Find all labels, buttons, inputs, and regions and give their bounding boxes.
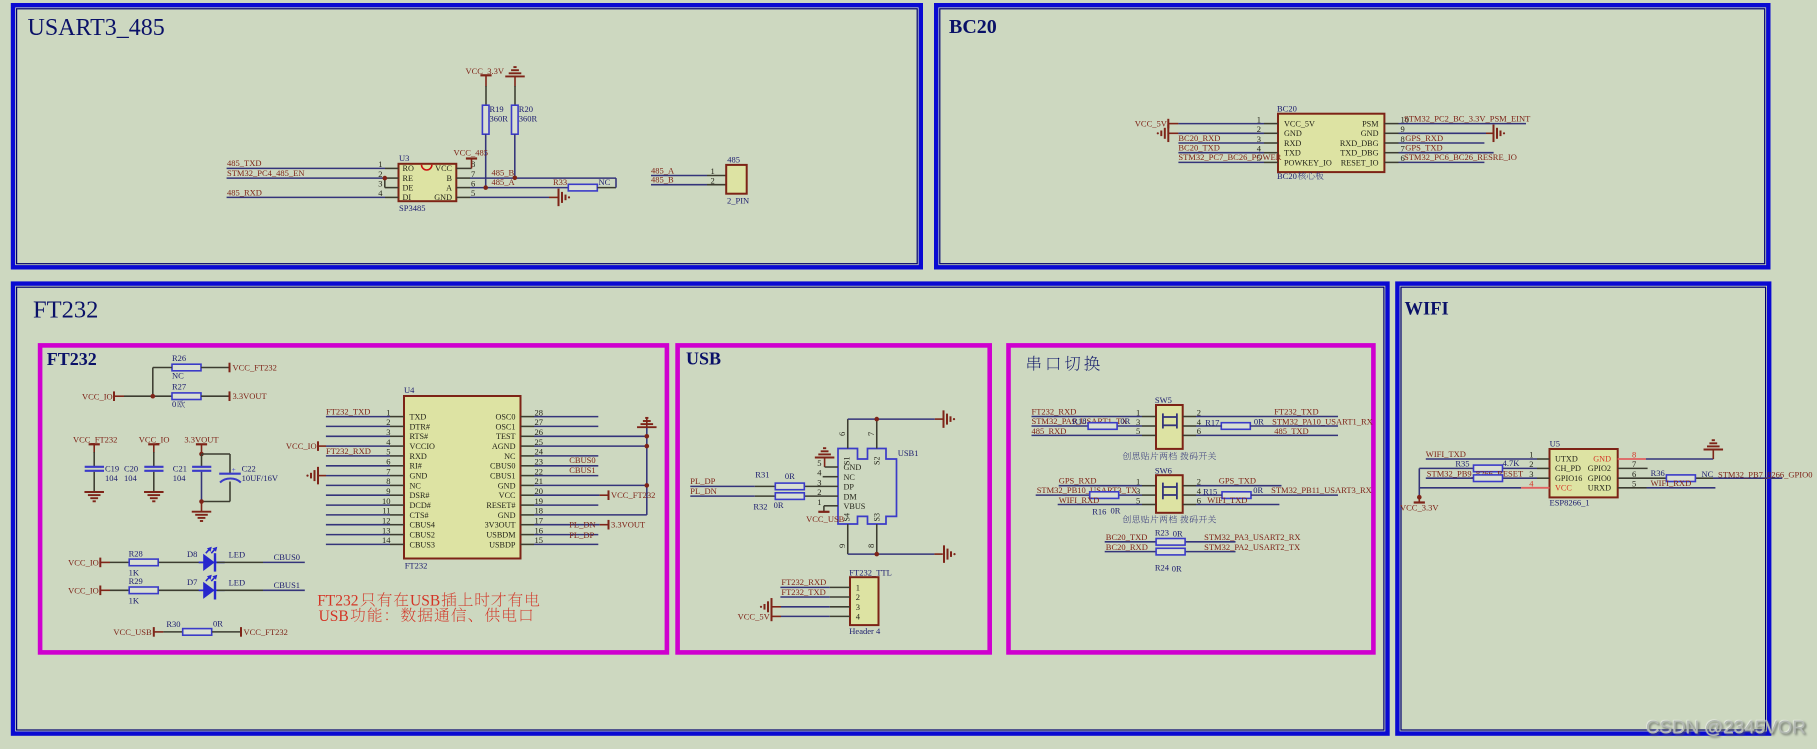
- wire 485_TXD SW5 pin6: [1183, 434, 1196, 436]
- svg-text:VCC_IO: VCC_IO: [82, 391, 113, 401]
- svg-text:104: 104: [173, 473, 187, 483]
- svg-text:+: +: [232, 465, 236, 474]
- svg-text:GND: GND: [1284, 129, 1302, 138]
- svg-text:SW6: SW6: [1155, 465, 1172, 475]
- svg-text:2_PIN: 2_PIN: [727, 196, 749, 206]
- svg-text:C19: C19: [105, 464, 119, 474]
- svg-text:VCC_FT232: VCC_FT232: [233, 363, 277, 373]
- power ground USB top: [943, 410, 945, 428]
- wire U4 pin20 VCC: [521, 494, 535, 496]
- svg-text:OSC1: OSC1: [495, 422, 515, 431]
- svg-text:WIFI: WIFI: [1405, 300, 1449, 320]
- wire U5 pin3 through R34: [1426, 477, 1537, 479]
- svg-text:GND: GND: [410, 472, 428, 481]
- svg-text:7: 7: [866, 432, 876, 436]
- wire junction to U3 pin3: [384, 178, 386, 188]
- svg-text:R26: R26: [172, 353, 186, 363]
- svg-text:CBUS1: CBUS1: [569, 465, 595, 475]
- svg-text:USB1: USB1: [898, 448, 919, 458]
- wire U4 pin2: [326, 425, 390, 427]
- svg-text:STM32_PA3_USART2_RX: STM32_PA3_USART2_RX: [1204, 532, 1300, 542]
- svg-text:A: A: [446, 183, 452, 192]
- wires U4 pins 8-14: [326, 484, 390, 486]
- earth ground C19: [84, 491, 104, 493]
- power ground at BC20 pin9: [1493, 125, 1495, 143]
- svg-text:104: 104: [124, 473, 138, 483]
- wire R33 to 485_B net: [597, 187, 616, 189]
- wire D7 to CBUS1: [217, 589, 263, 591]
- resistor R18: [1088, 423, 1117, 430]
- svg-text:PL_DN: PL_DN: [569, 520, 595, 530]
- svg-text:STM32_PB10_USART3_TX: STM32_PB10_USART3_TX: [1037, 485, 1138, 495]
- resistor R15: [1222, 492, 1251, 499]
- svg-text:RTS#: RTS#: [410, 432, 429, 441]
- svg-text:USB: USB: [410, 593, 440, 610]
- wire 3.3VOUT node to C21 and C22: [201, 454, 203, 466]
- wire U5 pin5 URXD: [1618, 487, 1647, 489]
- wire U4 pin15 USBDP: [521, 543, 535, 545]
- svg-text:GND: GND: [434, 193, 452, 202]
- svg-text:D7: D7: [187, 577, 197, 587]
- wire SW6 pin4 through R15: [1183, 494, 1196, 496]
- wire gnd vertical U4 right: [646, 418, 648, 429]
- wire USB1 pin1 VBUS to VCC_USB: [824, 505, 838, 507]
- svg-text:VCC_FT232: VCC_FT232: [73, 435, 117, 445]
- SW5 symbol: [1162, 413, 1164, 428]
- wire U3 pin5 GND: [456, 196, 470, 198]
- svg-text:R36: R36: [1651, 468, 1665, 478]
- svg-text:104: 104: [105, 473, 119, 483]
- svg-text:BC20: BC20: [1277, 171, 1297, 181]
- wire U4 pin3: [326, 435, 390, 437]
- capacitor C21: [192, 466, 211, 468]
- svg-text:1K: 1K: [129, 595, 140, 605]
- earth ground C20: [144, 491, 164, 493]
- resistor R28: [129, 559, 158, 566]
- svg-text:0R: 0R: [785, 471, 795, 481]
- wire U4 pin25 AGND to gnd: [521, 445, 535, 447]
- wire PL_DN through R32: [690, 495, 755, 497]
- label 创思贴片两档拨码开关 (SW6): [1123, 515, 1177, 523]
- junction VCC_3.3V: [1417, 495, 1422, 500]
- svg-text:STM32_PC4_485_EN: STM32_PC4_485_EN: [227, 168, 304, 178]
- block frame FT232: [13, 284, 1388, 734]
- svg-text:D8: D8: [187, 549, 197, 559]
- wire U5 pin8 GND to earth: [1618, 458, 1646, 460]
- svg-text:485_RXD: 485_RXD: [227, 187, 262, 197]
- svg-text:1: 1: [817, 497, 821, 507]
- svg-text:R32: R32: [753, 501, 767, 511]
- resistor R30: [183, 629, 212, 636]
- wire VCC_USB to R30: [154, 631, 164, 633]
- wire USB1 pin4: [823, 476, 838, 478]
- resistor R23: [1156, 539, 1185, 546]
- svg-text:FT232_TXD: FT232_TXD: [326, 406, 370, 416]
- wire FT232_RXD header pin1: [780, 586, 829, 588]
- wire vertical VCC_3.3V rail: [1418, 468, 1420, 497]
- svg-text:PL_DN: PL_DN: [690, 486, 716, 496]
- svg-text:VCC_IO: VCC_IO: [68, 585, 99, 595]
- wire VCC_5V header pin4: [772, 615, 782, 617]
- capacitor C22 (polarized): [219, 473, 241, 475]
- wire 485_A from U3 pin6: [456, 187, 470, 189]
- junction on pin2 net: [383, 176, 388, 181]
- svg-text:BC20: BC20: [949, 16, 997, 38]
- wire to C19: [93, 452, 95, 466]
- wire SW5 pin4 through R17: [1183, 425, 1196, 427]
- svg-text:RESET_IO: RESET_IO: [1341, 158, 1379, 167]
- wire gnd header pin3: [772, 606, 782, 608]
- svg-text:B: B: [447, 174, 453, 183]
- power port 3.3VOUT (R27): [229, 391, 231, 401]
- svg-text:WIFI_RXD: WIFI_RXD: [1059, 495, 1100, 505]
- svg-text:3.3VOUT: 3.3VOUT: [184, 435, 219, 445]
- svg-text:0R: 0R: [1173, 529, 1183, 539]
- wire WIFI_TXD U5 pin1: [1426, 458, 1537, 460]
- wire C22 to gnd node: [229, 482, 231, 502]
- earth ground (U5 pin8): [1704, 449, 1724, 451]
- svg-text:STM32_PC7_BC26_POWER: STM32_PC7_BC26_POWER: [1178, 152, 1281, 162]
- svg-text:VCC: VCC: [499, 491, 516, 500]
- svg-text:NC: NC: [172, 371, 184, 381]
- svg-text:OSC0: OSC0: [495, 413, 515, 422]
- svg-text:360R: 360R: [519, 114, 538, 124]
- wire STM32_PC4_485_EN to U3 pin2: [227, 177, 385, 179]
- svg-text:NC: NC: [1702, 469, 1714, 479]
- earth ground (U4 right): [637, 426, 657, 428]
- svg-text:2: 2: [711, 175, 715, 185]
- svg-text:CBUS3: CBUS3: [410, 540, 435, 549]
- wire gnd U4 pin7: [318, 475, 326, 477]
- svg-text:PL_DP: PL_DP: [569, 530, 594, 540]
- svg-text:BC20_TXD: BC20_TXD: [1178, 143, 1220, 153]
- svg-text:9: 9: [837, 544, 847, 548]
- svg-text:0R: 0R: [213, 619, 223, 629]
- wire VCC_3.3V to R19: [485, 86, 487, 106]
- wire C20 to gnd: [153, 472, 155, 492]
- resistor R34: [1474, 475, 1503, 482]
- svg-text:RE: RE: [403, 174, 413, 183]
- power port 3.3VOUT (U4 pin17): [608, 520, 610, 530]
- svg-text:TXD_DBG: TXD_DBG: [1340, 149, 1378, 158]
- svg-text:VCC_3.3V: VCC_3.3V: [1400, 503, 1439, 513]
- wire U4 pin21 GND to gnd: [521, 484, 535, 486]
- power port VCC_3.3V (U5): [1418, 497, 1420, 502]
- svg-text:FT232_TXD: FT232_TXD: [781, 587, 825, 597]
- svg-text:U4: U4: [404, 385, 415, 395]
- wire U5 pin2 through R35: [1419, 467, 1473, 469]
- wire U4 pin17 3V3OUT: [521, 524, 535, 526]
- svg-text:S1: S1: [843, 457, 852, 465]
- svg-text:U5: U5: [1550, 439, 1560, 449]
- svg-text:485_A: 485_A: [492, 177, 516, 187]
- wire STM32_PC6 pin6: [1384, 161, 1398, 163]
- wire WIFI_TXD SW6 pin6: [1183, 504, 1196, 506]
- svg-text:GPIO0: GPIO0: [1588, 474, 1611, 483]
- svg-text:VCC_5V: VCC_5V: [738, 611, 771, 621]
- svg-text:TXD: TXD: [410, 413, 427, 422]
- svg-text:VCC: VCC: [435, 164, 452, 173]
- resistor R29: [129, 587, 158, 594]
- resistor R35: [1474, 465, 1503, 472]
- wire U5 pin4 VCC: [1419, 487, 1521, 489]
- svg-text:FT232: FT232: [47, 349, 97, 369]
- svg-text:R31: R31: [755, 469, 769, 479]
- wire C19 to gnd: [93, 472, 95, 492]
- wire R20 to node 485_B: [514, 134, 516, 178]
- svg-text:CBUS4: CBUS4: [410, 521, 435, 530]
- resistor R31: [775, 483, 804, 490]
- wire gnd to R20: [514, 86, 516, 106]
- svg-text:GPIO16: GPIO16: [1555, 474, 1582, 483]
- wire VCC_5V to BC20 pin1: [1168, 123, 1178, 125]
- svg-text:0R: 0R: [1254, 416, 1264, 426]
- svg-text:AGND: AGND: [492, 442, 516, 451]
- power ground at U3 pin5: [558, 189, 560, 207]
- wire USB1 pin8 shell: [876, 524, 878, 554]
- wire shell bottom to gnd: [848, 553, 935, 555]
- svg-text:0R: 0R: [774, 500, 784, 510]
- earth ground C21/C22: [192, 511, 212, 513]
- resistor R26: [172, 364, 201, 371]
- junction shell bottom: [874, 552, 879, 557]
- svg-text:RXD: RXD: [410, 452, 427, 461]
- power port VCC_FT232 (R30): [240, 627, 242, 637]
- svg-text:NC: NC: [410, 481, 422, 490]
- svg-text:DP: DP: [844, 483, 855, 492]
- wire U4 pin28: [521, 416, 535, 418]
- sub-box frame USB: [678, 345, 990, 652]
- svg-text:VCC_FT232: VCC_FT232: [244, 627, 288, 637]
- wire U5 pin6 through R36: [1618, 477, 1667, 479]
- svg-text:DCD#: DCD#: [410, 501, 431, 510]
- wire gnd to BC20 pin2: [1168, 132, 1178, 134]
- svg-text:R24: R24: [1155, 563, 1170, 573]
- svg-text:TXD: TXD: [1284, 149, 1301, 158]
- svg-text:CBUS1: CBUS1: [274, 580, 300, 590]
- svg-text:GPS_RXD: GPS_RXD: [1405, 133, 1443, 143]
- svg-text:POWKEY_IO: POWKEY_IO: [1284, 158, 1332, 167]
- wire BC20_TXD through R23: [1105, 541, 1156, 543]
- wire FT232_TXD header pin2: [780, 596, 829, 598]
- svg-text:NC: NC: [504, 452, 516, 461]
- svg-text:7: 7: [1632, 459, 1636, 469]
- svg-text:10UF/16V: 10UF/16V: [242, 473, 279, 483]
- svg-text:SP3485: SP3485: [399, 203, 425, 213]
- capacitor C20: [144, 466, 163, 468]
- svg-text:1: 1: [856, 582, 860, 592]
- wire R19 to node 485_A: [485, 134, 487, 187]
- svg-text:BC20_TXD: BC20_TXD: [1106, 532, 1148, 542]
- junction R20/485_B: [513, 176, 518, 181]
- svg-text:DE: DE: [403, 183, 414, 192]
- svg-text:R23: R23: [1155, 528, 1169, 538]
- svg-text:3.3VOUT: 3.3VOUT: [233, 391, 268, 401]
- wire FT232_RXD SW5 pin1: [1032, 416, 1143, 418]
- svg-text:GND: GND: [1593, 455, 1611, 464]
- wire to C20: [153, 452, 155, 466]
- wire VCC_IO to R27: [114, 395, 124, 397]
- wire U4 pin24: [521, 455, 535, 457]
- wire U4 pin16 USBDM: [521, 534, 535, 536]
- wire GPS_TXD SW6 pin2: [1183, 485, 1196, 487]
- power port VCC_FT232 (R26): [229, 363, 231, 373]
- power ground USB bottom: [943, 545, 945, 563]
- svg-text:BC20: BC20: [1277, 104, 1297, 114]
- svg-text:USB: USB: [319, 608, 349, 625]
- svg-text:485: 485: [727, 155, 740, 165]
- svg-text:VBUS: VBUS: [844, 502, 866, 511]
- svg-text:R35: R35: [1455, 458, 1469, 468]
- svg-text:S2: S2: [872, 457, 881, 465]
- svg-text:R30: R30: [166, 619, 180, 629]
- svg-text:R28: R28: [129, 548, 143, 558]
- power ground U4 pin7: [317, 467, 319, 485]
- svg-text:485_RXD: 485_RXD: [1032, 426, 1067, 436]
- svg-text:VCC_USB: VCC_USB: [806, 514, 845, 524]
- power ground at BC20 pin2: [1167, 125, 1169, 143]
- svg-text:R18: R18: [1072, 416, 1086, 426]
- svg-text:ESP8266_1: ESP8266_1: [1550, 498, 1590, 508]
- earth ground at USB1 pin5: [815, 457, 835, 459]
- sub-title 串口切换: [1027, 356, 1099, 371]
- wire BC20_RXD through R24: [1105, 551, 1156, 553]
- svg-text:NC: NC: [599, 177, 611, 187]
- svg-text:0R: 0R: [1120, 416, 1130, 426]
- wire STM32_PA9 through R18 SW5 pin3: [1032, 425, 1143, 427]
- wire FT232_TXD SW5 pin2: [1183, 416, 1196, 418]
- svg-text:RI#: RI#: [410, 462, 422, 471]
- svg-text:C22: C22: [242, 464, 256, 474]
- label 创思贴片两档拨码开关 (SW5): [1123, 452, 1177, 460]
- wire 485_B from U3 pin7: [456, 177, 470, 179]
- svg-text:STM32_PB11_USART3_RX: STM32_PB11_USART3_RX: [1271, 485, 1372, 495]
- svg-text:2: 2: [856, 592, 860, 602]
- svg-text:FT232_RXD: FT232_RXD: [781, 577, 826, 587]
- svg-text:BC20_RXD: BC20_RXD: [1178, 133, 1220, 143]
- svg-text:CBUS0: CBUS0: [274, 552, 300, 562]
- resistor R20: [512, 105, 519, 134]
- resistor R32: [775, 493, 804, 500]
- svg-text:FT232_RXD: FT232_RXD: [326, 446, 371, 456]
- wire C21 to gnd node: [201, 472, 203, 502]
- resistor R19: [482, 105, 489, 134]
- svg-text:SW5: SW5: [1155, 395, 1172, 405]
- power ground header pin3: [771, 598, 773, 616]
- wire U4 pin18 GND to gnd: [521, 514, 535, 516]
- svg-text:2: 2: [1529, 459, 1533, 469]
- svg-text:R19: R19: [490, 104, 504, 114]
- wire R26 left to VCC_IO net: [153, 367, 172, 369]
- svg-text:8: 8: [866, 544, 876, 548]
- svg-text:GPS_TXD: GPS_TXD: [1405, 143, 1442, 153]
- wire USB1 pin9 shell: [847, 524, 849, 554]
- svg-text:485_TXD: 485_TXD: [1274, 426, 1308, 436]
- wire U4 pin6: [326, 465, 390, 467]
- svg-text:0R: 0R: [1172, 564, 1182, 574]
- chip U3 SP3485 body: [399, 164, 457, 201]
- wire gnd node down: [201, 502, 203, 512]
- wire U3 pin8 to VCC_485: [456, 167, 471, 169]
- wire GPS_TXD pin7: [1384, 152, 1398, 154]
- svg-text:PSM: PSM: [1362, 120, 1379, 129]
- svg-text:URXD: URXD: [1588, 483, 1611, 492]
- wire USB1 pin6 shell: [847, 419, 849, 448]
- svg-text:LED: LED: [229, 577, 246, 587]
- wire WIFI_RXD SW6 pin5: [1058, 504, 1142, 506]
- wire R28 to D8: [159, 561, 203, 563]
- wire VCC_IO U4 pin4: [318, 445, 326, 447]
- block frame WIFI: [1397, 284, 1769, 734]
- svg-text:DSR#: DSR#: [410, 491, 430, 500]
- svg-text:NC: NC: [844, 473, 856, 482]
- svg-text:WIFI_TXD: WIFI_TXD: [1426, 449, 1466, 459]
- svg-text:VCC_USB: VCC_USB: [113, 627, 152, 637]
- svg-text:USBDP: USBDP: [489, 540, 516, 549]
- block frame BC20: [936, 5, 1768, 267]
- wire BC20_TXD to pin4: [1178, 152, 1264, 154]
- svg-text:S3: S3: [872, 513, 881, 521]
- svg-text:FT232_TTL: FT232_TTL: [849, 567, 892, 577]
- svg-text:WIFI_RXD: WIFI_RXD: [1651, 478, 1692, 488]
- wire USB1 pin7 shell: [876, 419, 878, 448]
- svg-text:3.3VOUT: 3.3VOUT: [611, 520, 646, 530]
- svg-text:485_TXD: 485_TXD: [227, 158, 261, 168]
- svg-text:CH_PD: CH_PD: [1555, 464, 1581, 473]
- svg-text:VCC_IO: VCC_IO: [286, 441, 317, 451]
- svg-text:USART3_485: USART3_485: [28, 15, 165, 41]
- earth ground (top of USART3_485): [505, 75, 525, 77]
- wire GPS_RXD SW6 pin1: [1059, 485, 1142, 487]
- svg-text:3V3OUT: 3V3OUT: [485, 521, 516, 530]
- svg-text:STM32_PC2_BC_3.3V_PSM_EINT: STM32_PC2_BC_3.3V_PSM_EINT: [1404, 113, 1531, 123]
- svg-text:C20: C20: [124, 464, 138, 474]
- svg-text:6: 6: [837, 432, 847, 436]
- svg-text:STM32_PC6_BC26_RESRE_IO: STM32_PC6_BC26_RESRE_IO: [1404, 152, 1517, 162]
- svg-text:CBUS0: CBUS0: [490, 462, 515, 471]
- svg-text:CBUS0: CBUS0: [569, 455, 595, 465]
- svg-text:VCCIO: VCCIO: [410, 442, 436, 451]
- wire U4 pin22 CBUS1: [521, 475, 535, 477]
- svg-text:BC20_RXD: BC20_RXD: [1106, 542, 1148, 552]
- wire U4 pin26 TEST to gnd: [521, 435, 535, 437]
- wire 485_A to J485 pin1: [651, 175, 707, 177]
- svg-text:4: 4: [856, 611, 861, 621]
- junction AGND/gnd: [645, 444, 650, 449]
- junction VCC_IO/R26: [151, 394, 156, 399]
- svg-text:FT232_RXD: FT232_RXD: [1032, 406, 1077, 416]
- wire PL_DP through R31: [690, 485, 755, 487]
- wire R29 to D7: [159, 589, 203, 591]
- U3 notch arc: [422, 165, 432, 170]
- junction 3.3VOUT/C22: [199, 452, 204, 457]
- svg-text:5: 5: [817, 458, 821, 468]
- svg-text:GND: GND: [1361, 129, 1379, 138]
- svg-text:GPS_TXD: GPS_TXD: [1219, 476, 1256, 486]
- svg-text:0: 0: [172, 399, 176, 409]
- resistor R27: [172, 393, 201, 400]
- svg-text:3: 3: [378, 178, 382, 188]
- resistor R33: [568, 184, 597, 191]
- svg-text:RXD_DBG: RXD_DBG: [1340, 139, 1379, 148]
- svg-text:U3: U3: [399, 153, 409, 163]
- sub-box frame FT232: [40, 345, 667, 652]
- wire VCC_IO to R29: [100, 589, 110, 591]
- wire 485_RXD SW5 pin5: [1032, 434, 1143, 436]
- resistor R16: [1090, 492, 1119, 499]
- svg-text:FT232: FT232: [405, 561, 428, 571]
- junction R19/485_A: [483, 185, 488, 190]
